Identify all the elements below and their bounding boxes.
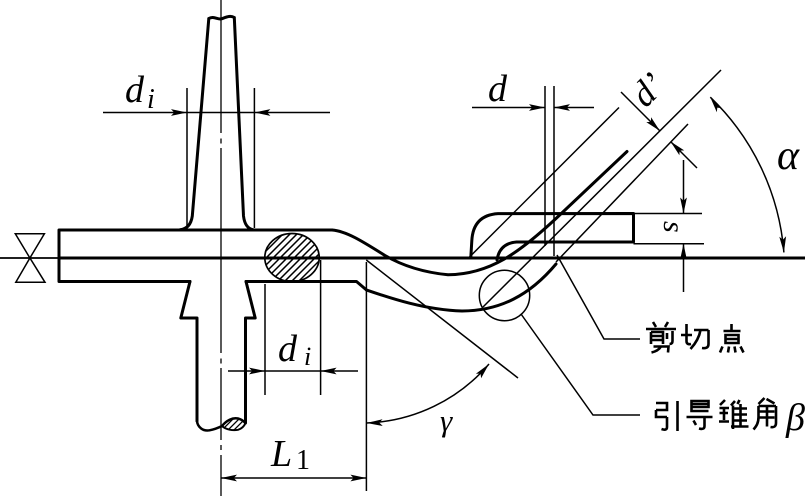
svg-text:β: β (785, 397, 805, 439)
bar bottom right and die face chamfer (246, 282, 367, 291)
svg-text:d: d (125, 69, 145, 111)
left die bar outline (59, 230, 332, 282)
extension lines bottom d_i (265, 260, 321, 395)
svg-text:i: i (147, 84, 155, 115)
hatched wire cross-section circle (265, 234, 319, 282)
hatched lens at cylinder bottom (222, 423, 246, 430)
svg-text:L: L (270, 433, 292, 475)
label jiao (angle char 4) (754, 398, 777, 430)
dimension line top d_i (103, 112, 330, 114)
label dian (shear point char 3) (720, 324, 744, 353)
s dimension arrows (683, 160, 685, 292)
label jian (shear point char 1) (646, 322, 676, 353)
diagonal line B from blade heel (469, 108, 619, 258)
svg-text:1: 1 (296, 445, 310, 476)
label zhui (cone char 3) (719, 400, 749, 429)
wire lower S-curve (367, 264, 557, 311)
dimension line d with arrows (472, 107, 594, 109)
label qie (shear point char 2) (681, 324, 709, 349)
svg-text:γ: γ (440, 403, 453, 438)
datum bowtie symbol (15, 234, 45, 282)
gamma reference diagonal (366, 260, 518, 378)
dimension line bottom d_i (228, 370, 358, 372)
gamma angle arc (367, 364, 489, 423)
s extension lines (634, 214, 705, 244)
svg-text:d: d (488, 68, 508, 110)
horizontal axis line (0, 257, 59, 259)
svg-text:i: i (304, 342, 311, 371)
vertical centerline of punch (220, 0, 222, 496)
lower trapezoid flange and cylinder (181, 282, 255, 424)
right blade (cutting knife) hook outline (471, 214, 634, 261)
leader line to shear point label (557, 255, 640, 339)
svg-text:s: s (657, 221, 690, 233)
svg-text:α: α (777, 133, 800, 179)
L1 dimension line (221, 477, 366, 479)
dimension d' line with arrows (621, 92, 697, 168)
punch (upper cutter) outline (180, 16, 254, 229)
cylinder bottom break wave (197, 418, 246, 430)
leader line to guide cone label (521, 314, 640, 415)
label yin (guide char 1) (656, 401, 678, 431)
wire stock top line (right) (552, 257, 805, 260)
label dao (guide char 2) (687, 401, 713, 429)
shear point circle (479, 270, 529, 320)
extension lines for top d_i (187, 88, 254, 228)
svg-text:d: d (278, 328, 298, 370)
extension lines for d (545, 86, 554, 256)
alpha angle arc (710, 97, 784, 252)
wire upper S-curve (332, 152, 627, 275)
L1 right extension line (365, 262, 367, 491)
parallel shear extension line A2 (556, 124, 688, 262)
main 45-degree shear plane line A (483, 70, 721, 307)
